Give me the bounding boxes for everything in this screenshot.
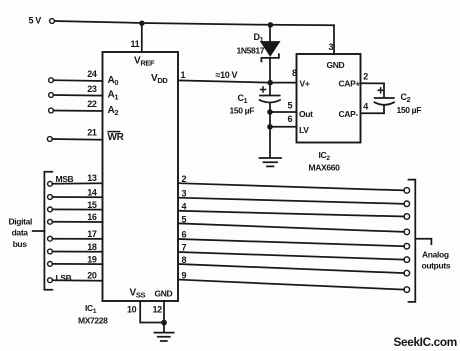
wire pin24 A0 — [53, 79, 102, 82]
svg-text:LSB: LSB — [56, 273, 72, 283]
junction dot VSS-GND — [161, 320, 167, 326]
terminal circle output 5 — [404, 229, 410, 235]
ground symbol below C1 — [260, 158, 282, 166]
wire IC2 pin4 CAP- to C2 — [361, 112, 385, 114]
capacitor C2 top lead — [383, 83, 385, 97]
capacitor C1 bottom lead — [269, 104, 271, 112]
terminal circle output 7 — [404, 257, 410, 263]
svg-text:14: 14 — [87, 187, 97, 197]
wire pin22 A2 — [53, 110, 102, 113]
wire analog output 5 — [179, 223, 405, 232]
bracket analog outputs — [409, 180, 416, 302]
wire pin23 A1 — [53, 94, 102, 97]
svg-text:16: 16 — [87, 212, 97, 222]
svg-text:GND: GND — [155, 289, 173, 299]
svg-text:8: 8 — [292, 68, 297, 78]
terminal circle output 8 — [404, 270, 410, 276]
svg-text:LV: LV — [299, 125, 309, 135]
wire pin21 WR — [52, 138, 102, 141]
svg-text:2: 2 — [182, 174, 187, 184]
svg-text:≈10 V: ≈10 V — [216, 70, 238, 80]
terminal circle output 4 — [404, 214, 410, 220]
terminal circle pin17 — [48, 236, 53, 241]
svg-text:Analog: Analog — [422, 250, 449, 260]
IC2 body MAX660 — [297, 54, 361, 143]
capacitor C2 bottom lead — [383, 106, 385, 113]
svg-text:17: 17 — [87, 229, 97, 239]
wire to ground symbol — [163, 323, 165, 333]
svg-text:3: 3 — [182, 188, 187, 198]
wire pin20 — [52, 279, 102, 282]
label C1 polarity plus — [260, 86, 267, 92]
svg-text:SeekIC.com: SeekIC.com — [394, 335, 457, 349]
svg-text:5: 5 — [182, 214, 187, 224]
wire pin17 — [52, 238, 102, 240]
svg-text:Digital: Digital — [9, 217, 33, 227]
junction dot LV node — [267, 124, 273, 130]
ground symbol below IC1 — [155, 333, 174, 341]
IC1 body MX7228 — [103, 52, 179, 301]
svg-text:10: 10 — [127, 305, 137, 315]
bracket digital data bus — [44, 172, 52, 290]
terminal circle pin18 — [48, 249, 53, 254]
svg-text:150 µF: 150 µF — [397, 105, 422, 115]
junction dot at pin11 on 5V rail — [139, 21, 144, 26]
terminal circle output 6 — [404, 243, 410, 249]
diode D1 triangle — [261, 42, 280, 56]
svg-text:20: 20 — [87, 271, 97, 281]
wire analog output 6 — [179, 239, 405, 246]
svg-text:9: 9 — [182, 271, 187, 281]
wire 5V rail horizontal — [55, 21, 335, 25]
svg-text:MX7228: MX7228 — [78, 316, 108, 326]
svg-text:V+: V+ — [300, 79, 310, 89]
wire Out pin5 to C1 — [270, 111, 297, 113]
svg-text:11: 11 — [131, 39, 140, 49]
capacitor C1 top lead — [269, 83, 271, 95]
svg-text:19: 19 — [87, 254, 97, 264]
wire analog output 9 — [179, 280, 405, 290]
terminal circle pin14 — [48, 195, 53, 200]
terminal circle A1 pin23 — [49, 93, 54, 98]
svg-text:6: 6 — [182, 230, 187, 240]
wire pin18 — [52, 251, 102, 253]
wire pin15 — [52, 208, 102, 210]
svg-text:21: 21 — [87, 128, 97, 138]
svg-text:2: 2 — [363, 71, 368, 81]
wire IC1 pin1 VDD to IC2 pin8 V+ — [178, 80, 297, 82]
dash digital data bus pointer — [33, 230, 45, 232]
terminal circle pin16 — [48, 219, 53, 224]
wire analog output 8 — [179, 264, 405, 273]
svg-text:5: 5 — [288, 101, 293, 111]
diode D1 schottky cathode bar — [261, 54, 279, 61]
wire node Out down to LV — [269, 112, 271, 127]
svg-text:22: 22 — [87, 99, 97, 109]
svg-text:MSB: MSB — [56, 174, 74, 184]
svg-text:3: 3 — [329, 42, 334, 52]
svg-text:CAP-: CAP- — [339, 109, 359, 119]
svg-text:Out: Out — [299, 109, 313, 119]
terminal circle output 3 — [404, 201, 410, 207]
terminal circle A2 pin22 — [49, 108, 54, 113]
dash analog outputs pointer — [415, 239, 431, 244]
capacitor C1 positive plate — [260, 95, 280, 97]
diode D1 cathode wire — [269, 58, 271, 83]
junction dot Out node — [267, 109, 273, 115]
svg-text:1: 1 — [181, 70, 186, 80]
wire pin13 — [52, 182, 102, 185]
svg-text:data: data — [12, 228, 29, 238]
terminal circle WR pin21 — [47, 137, 52, 142]
diode D1 anode wire — [269, 25, 271, 42]
svg-text:CAP+: CAP+ — [339, 79, 361, 89]
svg-text:GND: GND — [327, 60, 345, 70]
terminal circle A0 pin24 — [49, 78, 54, 83]
terminal circle pin19 — [48, 262, 53, 267]
node 5V terminal circle — [50, 19, 55, 24]
svg-text:23: 23 — [87, 84, 97, 94]
junction dot at D1 anode on 5V rail — [268, 22, 274, 28]
wire analog output 7 — [179, 252, 405, 260]
svg-text:4: 4 — [182, 202, 187, 212]
wire IC1 pin10 VSS — [140, 301, 164, 323]
svg-text:MAX660: MAX660 — [309, 163, 341, 173]
terminal circle output 9 — [404, 287, 410, 293]
wire IC2 pin3 drop — [333, 25, 335, 54]
capacitor C2 positive plate — [375, 97, 394, 99]
junction dot VDD node at D1 — [267, 80, 273, 86]
wire LV node to ground — [269, 127, 271, 158]
label C2 polarity plus — [377, 87, 384, 93]
svg-text:7: 7 — [182, 243, 187, 253]
wire LV pin6 — [270, 126, 297, 128]
wire analog output 2 — [179, 183, 405, 190]
terminal circle pin20 LSB — [48, 278, 53, 283]
svg-text:13: 13 — [87, 173, 97, 183]
capacitor C2 curved negative plate — [375, 102, 395, 105]
svg-text:18: 18 — [87, 242, 97, 252]
wire pin19 — [52, 263, 102, 265]
svg-text:24: 24 — [87, 69, 97, 79]
overline of WR — [107, 131, 120, 133]
terminal circle output 2 — [404, 188, 410, 194]
terminal circle pin13 MSB — [48, 181, 53, 186]
svg-text:4: 4 — [363, 101, 368, 111]
svg-text:bus: bus — [13, 239, 28, 249]
wire pin16 — [52, 221, 102, 223]
wire IC1 pin12 GND — [163, 301, 165, 323]
svg-text:outputs: outputs — [422, 261, 451, 271]
wire IC1 pin11 VREF drop — [141, 23, 143, 52]
svg-text:WR: WR — [108, 132, 125, 143]
svg-text:150 µF: 150 µF — [230, 106, 255, 116]
wire IC2 pin2 CAP+ to C2 — [361, 82, 385, 84]
svg-text:8: 8 — [182, 255, 187, 265]
capacitor C1 curved negative plate — [260, 100, 281, 103]
wire analog output 3 — [179, 198, 405, 204]
svg-text:5 V: 5 V — [29, 16, 42, 26]
svg-text:1N5817: 1N5817 — [237, 46, 265, 56]
terminal circle pin15 — [48, 207, 53, 212]
svg-text:12: 12 — [153, 305, 163, 315]
wire analog output 4 — [179, 211, 405, 217]
svg-text:15: 15 — [87, 200, 97, 210]
wire pin14 — [52, 196, 102, 198]
svg-text:6: 6 — [288, 114, 293, 124]
